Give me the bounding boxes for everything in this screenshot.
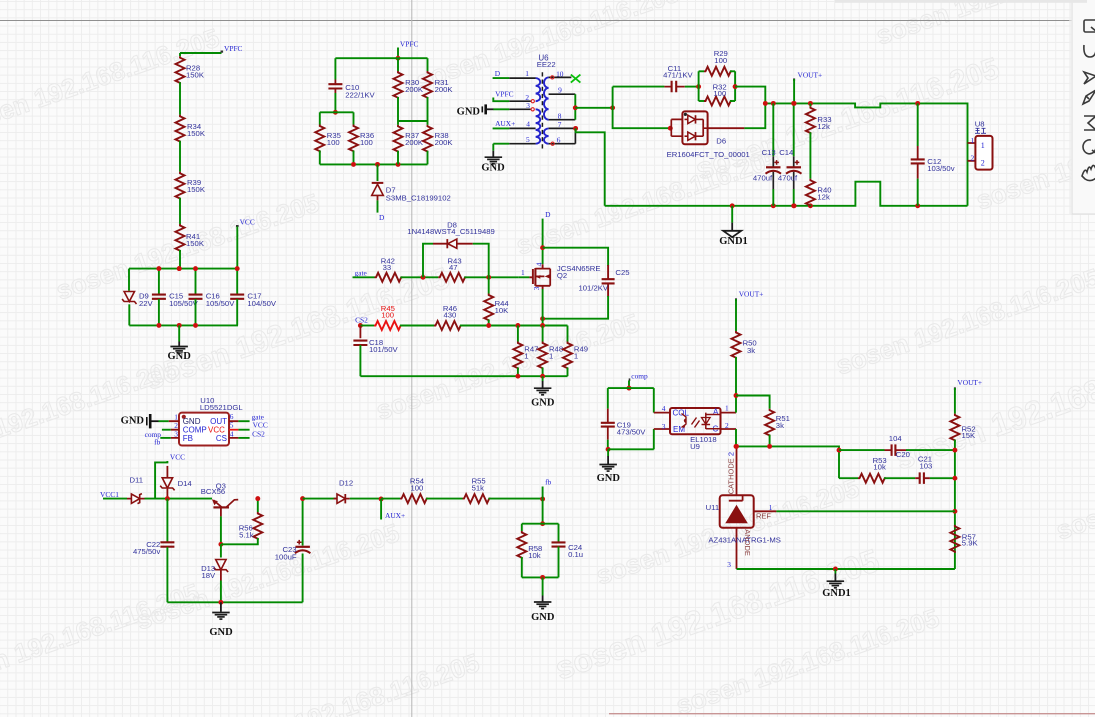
svg-text:CS2: CS2 <box>252 430 265 439</box>
svg-text:D: D <box>379 213 385 222</box>
svg-text:A: A <box>713 408 719 417</box>
svg-text:12k: 12k <box>817 122 830 131</box>
svg-text:103/50v: 103/50v <box>927 164 955 173</box>
svg-text:sosen 192.168.116.205: sosen 192.168.116.205 <box>872 0 1095 51</box>
svg-text:5: 5 <box>526 135 530 144</box>
svg-text:FB: FB <box>183 434 193 443</box>
svg-text:AUX+: AUX+ <box>385 511 405 520</box>
svg-text:150K: 150K <box>186 71 205 80</box>
svg-text:GND: GND <box>597 473 621 484</box>
svg-text:101/50V: 101/50V <box>369 345 399 354</box>
svg-text:VCC: VCC <box>253 421 268 430</box>
svg-text:REF: REF <box>756 512 771 521</box>
svg-text:5.9K: 5.9K <box>962 539 979 548</box>
svg-text:1: 1 <box>524 351 528 360</box>
svg-text:200K: 200K <box>405 138 424 147</box>
svg-text:430: 430 <box>444 310 457 319</box>
svg-text:105/50V: 105/50V <box>169 299 199 308</box>
svg-text:VPFC: VPFC <box>224 44 243 53</box>
svg-text:150K: 150K <box>187 129 206 138</box>
svg-text:15K: 15K <box>962 431 977 440</box>
svg-text:7: 7 <box>558 120 562 129</box>
svg-text:100: 100 <box>327 138 340 147</box>
svg-text:9: 9 <box>558 86 562 95</box>
svg-text:VOUT+: VOUT+ <box>957 378 982 387</box>
svg-text:VOUT+: VOUT+ <box>739 289 764 298</box>
svg-text:100: 100 <box>713 89 726 98</box>
svg-text:fb: fb <box>545 478 551 487</box>
svg-text:150K: 150K <box>187 185 206 194</box>
svg-text:D12: D12 <box>339 478 353 487</box>
svg-text:sosen 192.168.116.205: sosen 192.168.116.205 <box>832 262 1095 380</box>
svg-text:200K: 200K <box>435 85 454 94</box>
svg-text:1: 1 <box>725 403 729 412</box>
svg-text:ER1604FCT_TO_00001: ER1604FCT_TO_00001 <box>667 150 750 159</box>
svg-text:3: 3 <box>526 101 530 110</box>
svg-text:C13: C13 <box>762 148 776 157</box>
svg-text:100uF: 100uF <box>275 552 297 561</box>
svg-text:100: 100 <box>411 483 424 492</box>
svg-text:100: 100 <box>381 310 394 319</box>
svg-text:comp: comp <box>631 372 648 381</box>
svg-text:Q2: Q2 <box>557 271 567 280</box>
svg-text:470uf: 470uf <box>778 174 798 183</box>
svg-text:18V: 18V <box>202 571 217 580</box>
svg-text:105/50V: 105/50V <box>206 299 236 308</box>
svg-text:100: 100 <box>360 138 373 147</box>
svg-text:3k: 3k <box>747 346 755 355</box>
svg-text:3: 3 <box>727 560 731 569</box>
svg-text:D11: D11 <box>130 475 144 484</box>
svg-text:ANODE: ANODE <box>743 529 752 556</box>
svg-text:33: 33 <box>383 263 392 272</box>
svg-text:150K: 150K <box>186 239 205 248</box>
svg-text:D6: D6 <box>716 137 726 146</box>
svg-text:475/50v: 475/50v <box>133 547 161 556</box>
svg-text:103: 103 <box>920 461 933 470</box>
svg-text:CATHODE 2: CATHODE 2 <box>727 452 736 494</box>
svg-text:C25: C25 <box>615 268 629 277</box>
svg-text:471/1KV: 471/1KV <box>663 70 693 79</box>
svg-text:GND1: GND1 <box>822 588 851 599</box>
svg-text:1: 1 <box>981 141 985 150</box>
svg-text:1: 1 <box>549 351 553 360</box>
svg-text:3k: 3k <box>776 421 784 430</box>
svg-text:12k: 12k <box>817 193 830 202</box>
svg-text:200K: 200K <box>435 138 454 147</box>
svg-text:D14: D14 <box>178 479 193 488</box>
svg-text:GND: GND <box>531 397 555 408</box>
svg-text:sosen 192.168.116.205: sosen 192.168.116.205 <box>412 0 683 96</box>
svg-text:GND: GND <box>209 627 233 638</box>
svg-text:8: 8 <box>558 111 562 120</box>
svg-text:4: 4 <box>662 404 666 413</box>
svg-text:1N4148WST4_C5119489: 1N4148WST4_C5119489 <box>407 227 494 236</box>
svg-text:2: 2 <box>725 421 729 430</box>
svg-text:sosen 192.168.116.205: sosen 192.168.116.205 <box>132 517 403 635</box>
svg-text:22V: 22V <box>139 299 154 308</box>
svg-text:3: 3 <box>532 286 541 290</box>
svg-text:sosen 192.168.116.205: sosen 192.168.116.205 <box>692 52 1004 187</box>
svg-text:VPFC: VPFC <box>495 89 514 98</box>
svg-text:10K: 10K <box>495 306 510 315</box>
svg-text:101/2KV: 101/2KV <box>579 284 609 293</box>
svg-text:GND: GND <box>531 612 555 623</box>
svg-text:C20: C20 <box>896 450 910 459</box>
svg-text:CS2: CS2 <box>355 315 368 324</box>
svg-text:gate: gate <box>355 269 368 278</box>
svg-text:6: 6 <box>557 135 561 144</box>
svg-text:U11: U11 <box>706 503 720 512</box>
svg-text:3: 3 <box>662 422 666 431</box>
svg-text:51k: 51k <box>472 483 485 492</box>
svg-text:1: 1 <box>521 268 525 277</box>
svg-text:5.1k: 5.1k <box>239 530 254 539</box>
svg-text:C14: C14 <box>779 148 794 157</box>
svg-text:COL: COL <box>673 409 690 418</box>
svg-text:1: 1 <box>970 136 974 145</box>
svg-text:GND: GND <box>168 351 192 362</box>
svg-text:4: 4 <box>230 429 234 438</box>
svg-text:2: 2 <box>970 154 974 163</box>
svg-text:sosen 192.168.116.205: sosen 192.168.116.205 <box>212 647 483 717</box>
svg-text:10k: 10k <box>873 463 886 472</box>
svg-text:470uf: 470uf <box>753 174 773 183</box>
svg-text:D: D <box>495 69 501 78</box>
svg-text:1: 1 <box>525 69 529 78</box>
svg-text:EE22: EE22 <box>537 60 556 69</box>
svg-text:104/50V: 104/50V <box>247 299 277 308</box>
svg-text:473/50V: 473/50V <box>617 427 647 436</box>
svg-text:3: 3 <box>174 430 178 439</box>
svg-text:10: 10 <box>556 70 564 79</box>
svg-text:U9: U9 <box>690 442 700 451</box>
svg-text:AUX+: AUX+ <box>495 119 515 128</box>
svg-text:sosen 192.168.116.205: sosen 192.168.116.205 <box>0 577 203 695</box>
svg-text:47: 47 <box>449 263 458 272</box>
svg-text:fb: fb <box>154 437 160 446</box>
svg-text:1: 1 <box>574 351 578 360</box>
svg-text:S3MB_C18199102: S3MB_C18199102 <box>386 194 451 203</box>
svg-text:VCC: VCC <box>170 452 185 461</box>
svg-text:CS: CS <box>216 434 227 443</box>
svg-text:D: D <box>545 210 551 219</box>
svg-text:sosen 192.168.116.205: sosen 192.168.116.205 <box>1052 427 1095 545</box>
svg-text:VPFC: VPFC <box>400 39 419 48</box>
svg-text:BCX56: BCX56 <box>201 487 225 496</box>
svg-text:GND: GND <box>481 163 505 174</box>
svg-text:U8: U8 <box>975 120 985 129</box>
svg-text:GND1: GND1 <box>719 236 748 247</box>
svg-text:100: 100 <box>714 56 727 65</box>
svg-text:GND: GND <box>121 415 145 426</box>
svg-text:10k: 10k <box>528 551 541 560</box>
svg-text:0.1u: 0.1u <box>568 550 583 559</box>
svg-text:VCC: VCC <box>240 217 255 226</box>
svg-text:200K: 200K <box>405 85 424 94</box>
svg-text:104: 104 <box>889 434 903 443</box>
svg-text:4: 4 <box>526 120 530 129</box>
svg-text:2: 2 <box>981 158 985 167</box>
svg-text:LD5521DGL: LD5521DGL <box>200 403 243 412</box>
svg-text:VOUT+: VOUT+ <box>798 71 823 80</box>
svg-text:GND: GND <box>457 107 481 118</box>
svg-text:222/1KV: 222/1KV <box>345 90 375 99</box>
